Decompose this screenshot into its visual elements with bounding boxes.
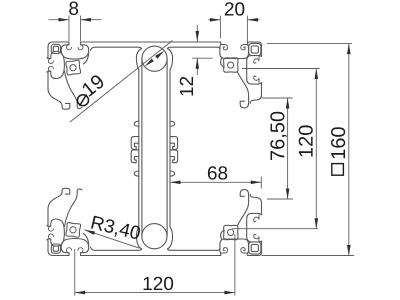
dimension 68: text xyxy=(208,166,227,179)
corner square screw hole TR xyxy=(249,43,261,55)
dimension 20: dimension line + arrows xyxy=(209,19,221,21)
diameter 19 text xyxy=(81,74,105,97)
diameter symbol xyxy=(78,95,89,106)
dimension 120 bottom: extension lines xyxy=(74,249,76,296)
dimension 68: dimension line + arrows xyxy=(170,181,261,183)
top edge right of slot + outer corner TR xyxy=(248,42,262,56)
20mm slot opening top-right face xyxy=(220,42,249,59)
T-slot opening on left face of TL corner xyxy=(47,51,65,78)
leader line R3,40 xyxy=(85,230,140,248)
corner square screw hole TL xyxy=(51,44,60,53)
bottom half of profile (mirrored) xyxy=(47,188,262,255)
top edge of profile xyxy=(81,41,221,43)
clover screw boss TL xyxy=(66,60,81,75)
web hook C upper xyxy=(131,137,139,150)
dimension 8: extension lines xyxy=(68,16,70,42)
dimension 120 bottom: text xyxy=(144,277,174,290)
T-slot opening on right face of TR corner xyxy=(247,56,262,85)
inner wall + terminal hook TL xyxy=(48,71,70,109)
square symbol for square profile xyxy=(332,164,344,176)
diameter 19 leader line xyxy=(70,41,173,123)
dimension 20: text xyxy=(225,2,244,15)
flange underside right of centre xyxy=(167,47,220,49)
top screw-channel boss xyxy=(136,49,141,70)
right edge below slot + bottom curl TR xyxy=(250,83,261,104)
web hook C lower xyxy=(131,150,139,163)
central web inner channel walls xyxy=(141,59,143,236)
dimension 160: dimension line + arrows xyxy=(348,44,350,256)
lip hooks of right-face slot xyxy=(254,56,259,63)
central web outer walls xyxy=(138,70,140,227)
profile outer corner top-left xyxy=(48,42,69,59)
dimension 120 bottom: dimension line + arrows xyxy=(75,292,235,294)
dimension 20: extension lines xyxy=(219,16,221,39)
dimension 8: dimension line + arrows xyxy=(49,19,70,21)
inner wall + terminal hook TR xyxy=(238,72,249,108)
dimension 76,50: extension lines xyxy=(262,97,293,99)
web hook small upper xyxy=(134,121,139,126)
dimension 76,50: dimension line + arrows xyxy=(287,98,289,199)
dimension 8: text xyxy=(69,2,78,15)
slot lip hooks inside 8mm cavity xyxy=(67,45,72,50)
dimension 160: text xyxy=(331,127,345,158)
flange underside left of centre xyxy=(91,47,142,50)
dimension 76,50: text xyxy=(270,112,287,160)
diagonal web wall TL xyxy=(64,71,82,109)
circle d19 top xyxy=(142,46,167,71)
T-slot 8mm opening and cavity, top-left face xyxy=(61,42,88,59)
dimension 120 right: extension lines xyxy=(242,68,320,70)
dimension 12: text xyxy=(180,77,193,96)
web hook small lower xyxy=(134,171,139,176)
clover screw boss TR xyxy=(224,58,238,72)
inner wall TR: from 20-slot to clover xyxy=(221,59,225,68)
hook lips of 20mm slot xyxy=(221,45,228,50)
dimension 12: extension tick at circle centre xyxy=(192,57,213,59)
dimension 160: extension lines xyxy=(267,43,352,45)
bottom screw-channel boss xyxy=(136,227,141,249)
dimension 120 right: text xyxy=(299,125,313,156)
dimension 12: lines + arrows xyxy=(196,25,198,42)
dimension 120 right: dimension line + arrows xyxy=(315,69,317,229)
R3,40 text xyxy=(90,215,141,242)
circle d19 bottom xyxy=(142,224,167,249)
